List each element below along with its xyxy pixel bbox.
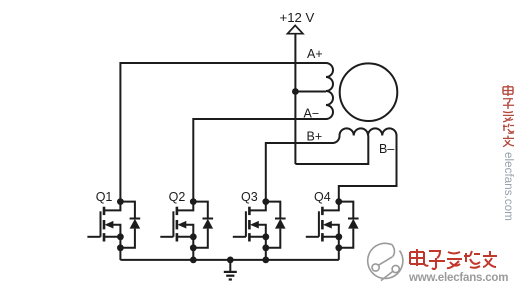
Q1 body diode cathode bar bbox=[130, 218, 141, 220]
svg-text:Q4: Q4 bbox=[314, 190, 331, 204]
Q4 drain lead bbox=[322, 202, 338, 211]
Q3 body diode anode-side wire bbox=[266, 202, 281, 219]
Q1 gate bar bbox=[100, 211, 102, 237]
transistor Q1 (N-MOSFET with body diode) bbox=[87, 198, 140, 260]
Q3 diode junction dot bbox=[262, 244, 269, 251]
svg-text:B+: B+ bbox=[307, 130, 323, 144]
wire winding A center tap bbox=[295, 91, 326, 93]
Q1 gate lead bbox=[87, 236, 100, 238]
Q4 body diode triangle bbox=[348, 219, 359, 229]
Q1 body diode triangle bbox=[130, 219, 141, 229]
Q2 channel body segment bbox=[176, 220, 179, 229]
Q2 body arrow bbox=[178, 221, 187, 229]
Q1 channel body segment bbox=[103, 220, 106, 229]
wire B+ (Q3 drain to winding B left) bbox=[266, 136, 340, 202]
Q1 diode junction dot bbox=[117, 244, 124, 251]
junction dot winding A center tap bbox=[292, 88, 299, 95]
watermark vertical 电子发烧友 (right edge) bbox=[503, 85, 514, 147]
transistor Q4 (N-MOSFET with body diode) bbox=[306, 198, 359, 260]
Q2 body diode cathode bar bbox=[203, 218, 214, 220]
junction dot Q2 source on rail bbox=[190, 257, 197, 264]
Q1 body diode return wire bbox=[120, 229, 134, 248]
Q3 channel drain segment bbox=[248, 207, 251, 215]
Q3 drain lead bbox=[249, 202, 265, 211]
Q1 body arrow bbox=[105, 221, 114, 229]
Q3 gate lead bbox=[233, 236, 246, 238]
Q4 body arrow bbox=[323, 221, 332, 229]
Q2 gate lead bbox=[160, 236, 173, 238]
Q1 source junction dot bbox=[117, 233, 124, 240]
Q3 source junction dot bbox=[262, 233, 269, 240]
transistor Q3 (N-MOSFET with body diode) bbox=[233, 198, 286, 260]
svg-text:Q1: Q1 bbox=[96, 190, 113, 204]
wire B- (winding B right to Q4 drain) bbox=[339, 136, 397, 202]
inductor winding B bbox=[340, 128, 397, 135]
transistor Q2 (N-MOSFET with body diode) bbox=[160, 198, 213, 260]
Q2 source junction dot bbox=[190, 233, 197, 240]
watermark text 电子发烧友 (red) bbox=[410, 249, 497, 269]
Q4 gate lead bbox=[306, 236, 319, 238]
Q3 body diode return wire bbox=[266, 229, 281, 248]
Q3 channel body segment bbox=[248, 220, 251, 229]
Q3 body diode cathode bar bbox=[275, 218, 286, 220]
junction dot ground tap bbox=[227, 257, 234, 264]
Q3 body arrow bbox=[250, 221, 259, 229]
Q3 source lead bbox=[249, 236, 265, 238]
wire +12V vertical rail bbox=[294, 34, 296, 164]
Q3 gate bar bbox=[245, 211, 247, 237]
Q2 body diode return wire bbox=[193, 229, 208, 248]
Q4 drain junction dot bbox=[335, 198, 342, 205]
Q2 body diode triangle bbox=[203, 219, 214, 229]
ground symbol bbox=[224, 260, 237, 280]
svg-text:Q2: Q2 bbox=[169, 190, 186, 204]
Q4 body-to-source wire bbox=[331, 225, 339, 260]
Q4 channel source segment bbox=[321, 233, 324, 241]
Q2 gate bar bbox=[172, 211, 174, 237]
inductor winding A bbox=[326, 63, 333, 119]
motor body circle bbox=[340, 63, 398, 121]
svg-text:B–: B– bbox=[379, 142, 394, 156]
Q4 source lead bbox=[322, 236, 338, 238]
watermark logo elecfans bbox=[368, 243, 403, 280]
Q4 source junction dot bbox=[335, 233, 342, 240]
wire source rail bbox=[120, 259, 338, 261]
Q2 diode junction dot bbox=[190, 244, 197, 251]
Q2 source lead bbox=[177, 236, 193, 238]
Q3 drain junction dot bbox=[262, 198, 269, 205]
Q4 body diode cathode bar bbox=[348, 218, 359, 220]
Q2 body diode anode-side wire bbox=[193, 202, 208, 219]
wire A+ (Q1 drain to winding A top) bbox=[120, 63, 326, 202]
Q2 channel source segment bbox=[176, 233, 179, 241]
Q3 body diode triangle bbox=[275, 219, 286, 229]
svg-text:Q3: Q3 bbox=[241, 190, 258, 204]
Q1 source lead bbox=[104, 236, 120, 238]
Q4 body diode return wire bbox=[339, 229, 354, 248]
Q2 drain lead bbox=[177, 202, 193, 211]
Q3 body-to-source wire bbox=[258, 225, 266, 260]
Q1 channel source segment bbox=[103, 233, 106, 241]
Q4 channel drain segment bbox=[321, 207, 324, 215]
Q4 channel body segment bbox=[321, 220, 324, 229]
Q4 gate bar bbox=[318, 211, 320, 237]
Q2 drain junction dot bbox=[190, 198, 197, 205]
Q4 diode junction dot bbox=[335, 244, 342, 251]
Q2 channel drain segment bbox=[176, 207, 179, 215]
wire A- (Q2 drain to winding A bottom) bbox=[193, 119, 326, 202]
Q3 channel source segment bbox=[248, 233, 251, 241]
wire +12V to winding B center tap bbox=[295, 136, 368, 165]
svg-text:www.elecfans.com: www.elecfans.com bbox=[408, 272, 508, 284]
svg-text:A+: A+ bbox=[307, 47, 323, 61]
Q1 body diode anode-side wire bbox=[120, 202, 134, 219]
svg-text:+12 V: +12 V bbox=[280, 10, 315, 25]
Q1 drain lead bbox=[104, 202, 120, 211]
Q4 body diode anode-side wire bbox=[339, 202, 354, 219]
svg-text:elecfans.com: elecfans.com bbox=[502, 152, 514, 221]
Q1 channel drain segment bbox=[103, 207, 106, 215]
power supply symbol +12V (up triangle) bbox=[288, 25, 303, 33]
Q1 body-to-source wire bbox=[112, 225, 120, 260]
Q1 drain junction dot bbox=[117, 198, 124, 205]
junction dot Q3 source on rail bbox=[262, 257, 269, 264]
Q2 body-to-source wire bbox=[185, 225, 193, 260]
